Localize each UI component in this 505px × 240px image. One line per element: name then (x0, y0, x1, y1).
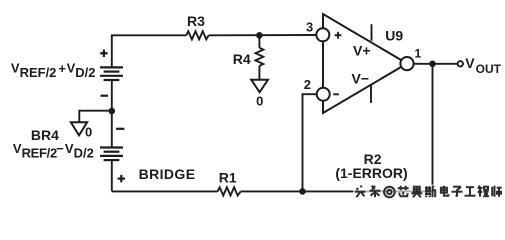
wire bottom from battery to R1 (112, 190, 218, 192)
resistor R1 (218, 187, 241, 195)
svg-text:R3: R3 (187, 13, 205, 29)
wire output vertical (432, 64, 434, 192)
wire feedback from bottom node to op-amp pin 2 (303, 94, 317, 191)
wire R4 stub from node to resistor (258, 35, 260, 48)
op-amp pin 1 output circle (400, 57, 413, 70)
op-amp minus input marker (333, 93, 339, 95)
svg-text:R4: R4 (233, 51, 251, 67)
svg-text:V+: V+ (353, 43, 371, 59)
wire R1 to output corner (241, 190, 433, 192)
op-amp U9 triangle (323, 14, 407, 113)
wire R3 to op-amp pin 3 (209, 34, 317, 36)
svg-text:3: 3 (306, 20, 313, 35)
battery BR4 lower cell plates (100, 148, 123, 161)
svg-text:0: 0 (85, 125, 92, 140)
wire op-amp output to terminal (414, 63, 458, 65)
ground at battery mid node (71, 122, 87, 135)
minus sign upper battery (101, 95, 109, 97)
wire top from battery to R3 (112, 35, 187, 66)
op-amp pin 3 circle (316, 28, 329, 41)
svg-text:BR4: BR4 (31, 127, 59, 143)
svg-text:1: 1 (414, 47, 421, 61)
minus sign lower battery (116, 128, 124, 130)
watermark strip (355, 186, 502, 198)
output terminal circle (458, 61, 463, 66)
svg-text:U9: U9 (385, 27, 403, 43)
svg-text:R1: R1 (219, 169, 237, 185)
wire R4 to ground (258, 66, 260, 80)
resistor R3 (186, 31, 208, 39)
plus sign lower battery (118, 175, 125, 182)
node junction dot output (429, 61, 436, 68)
node junction dot bottom feedback (299, 188, 306, 195)
op-amp plus input marker (335, 32, 342, 39)
resistor R4 (256, 48, 264, 66)
svg-text:BRIDGE: BRIDGE (139, 166, 196, 182)
battery BR4 upper cell plates (100, 67, 123, 80)
watermark halo (353, 185, 503, 200)
battery BR4 lower cell bottom wire (111, 161, 113, 192)
op-amp pin 2 circle (317, 88, 330, 101)
node junction dot at R3/R4 (256, 32, 263, 39)
op-amp V- supply tick (370, 85, 372, 103)
ground below R4 (251, 80, 268, 93)
wire ground branch at mid node (79, 111, 112, 123)
svg-text:(1-ERROR): (1-ERROR) (335, 165, 407, 181)
svg-text:2: 2 (304, 77, 311, 92)
svg-text:0: 0 (256, 93, 263, 108)
battery BR4 upper cell wires (111, 81, 113, 147)
plus sign upper battery (100, 50, 107, 57)
op-amp V+ supply tick (371, 24, 373, 41)
node junction dot between battery cells (109, 108, 116, 115)
svg-text:V−: V− (352, 71, 370, 87)
